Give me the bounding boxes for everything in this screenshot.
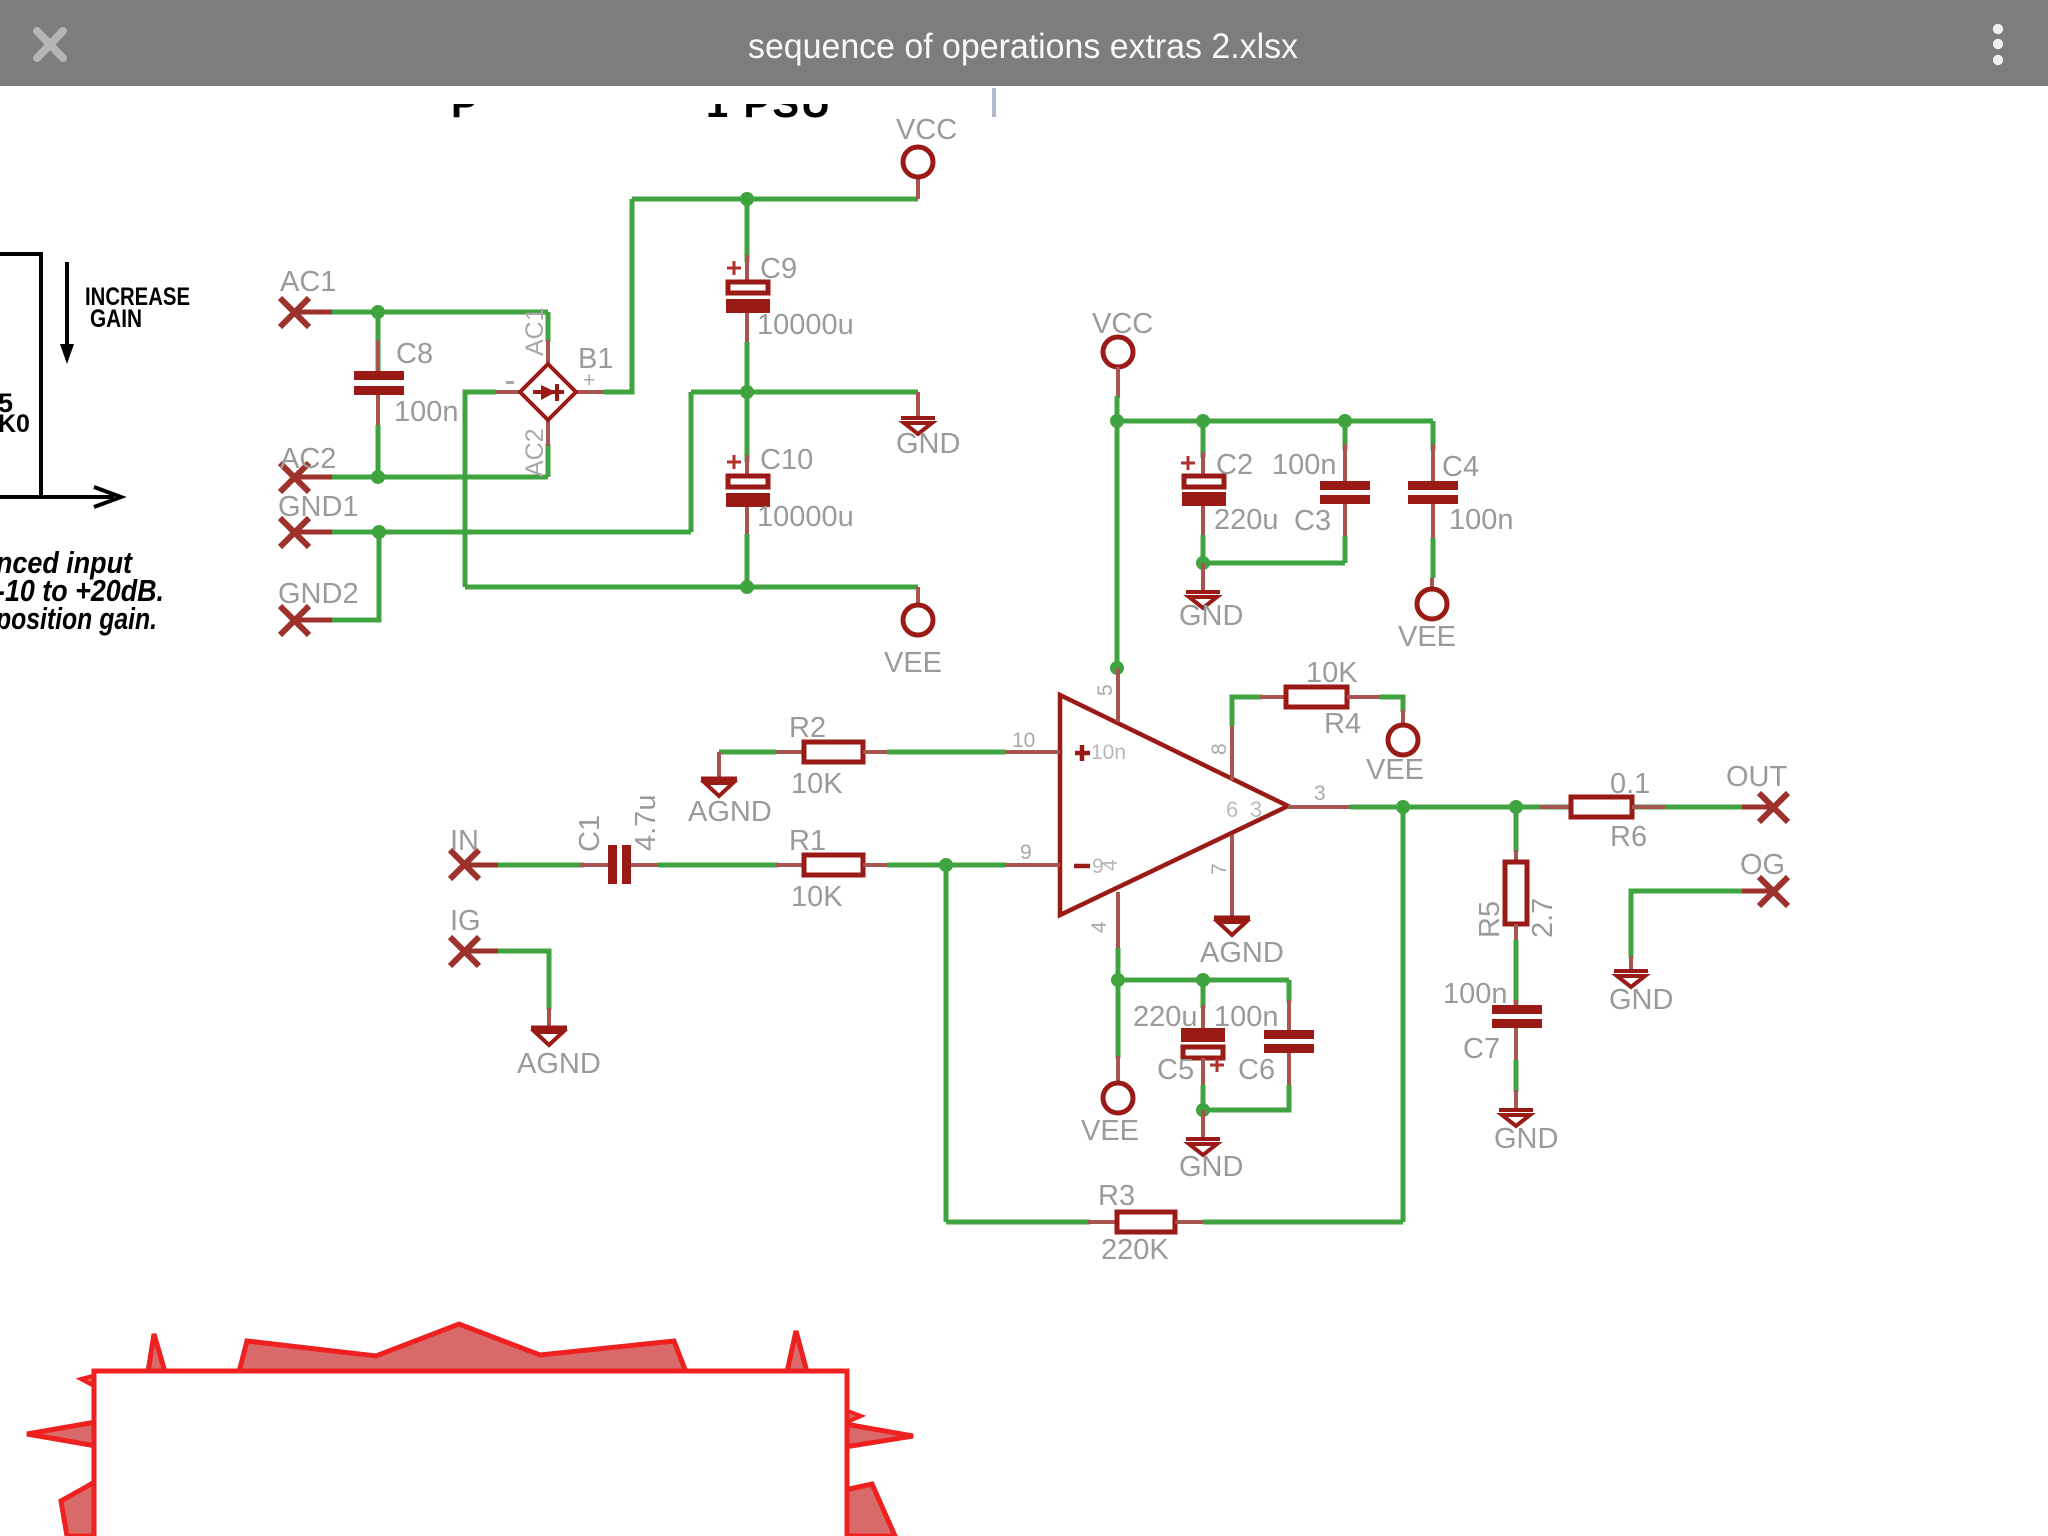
- svg-text:GND: GND: [896, 428, 960, 460]
- svg-text:C1: C1: [574, 815, 606, 852]
- capacitor C10 lead bottom: [745, 507, 749, 534]
- svg-text:VEE: VEE: [884, 647, 942, 679]
- terminal VCC2 stub: [1116, 367, 1120, 398]
- svg-text:10K: 10K: [791, 768, 843, 800]
- resistor R3 lead left: [1088, 1220, 1119, 1224]
- capacitor C7: [1492, 1005, 1542, 1028]
- opamp minus input mark: [1074, 864, 1090, 869]
- svg-text:10n: 10n: [1091, 741, 1126, 764]
- wire R5 top: [1514, 807, 1519, 852]
- resistor R4 lead left: [1260, 695, 1288, 699]
- capacitor C1 lead right: [631, 863, 660, 867]
- svg-text:IG: IG: [450, 905, 481, 937]
- bridge B1 body: [520, 364, 576, 420]
- node GND1-GND2 junction: [372, 525, 386, 539]
- ground GND stub below C2: [1201, 563, 1205, 592]
- svg-text:3: 3: [1250, 797, 1262, 822]
- node output junction R3: [1396, 800, 1410, 814]
- analog ground AGND stub (R2): [717, 752, 721, 779]
- wire GND2: [310, 532, 379, 620]
- svg-text:GAIN: GAIN: [90, 305, 142, 333]
- capacitor C5 lead bottom: [1201, 1058, 1205, 1085]
- capacitor C9 lead top: [745, 199, 750, 262]
- svg-text:220K: 220K: [1101, 1234, 1169, 1266]
- wire R3 bottom left: [946, 1220, 1090, 1225]
- analog ground AGND symbol (IG): [531, 1028, 567, 1045]
- resistor R6 body: [1571, 797, 1632, 817]
- svg-text:AGND: AGND: [1200, 937, 1284, 969]
- wire C7 to GND: [1514, 1060, 1519, 1092]
- starburst left notch: [81, 1375, 96, 1387]
- node C5 C6 bottom junction: [1196, 1103, 1210, 1117]
- svg-text:position gain.: position gain.: [0, 601, 157, 636]
- wire IN to C1: [498, 863, 584, 868]
- resistor R1 lead left: [776, 863, 806, 867]
- svg-text:C6: C6: [1238, 1054, 1275, 1086]
- node top rail C9 junction: [740, 192, 754, 206]
- resistor R2 lead right: [863, 750, 889, 754]
- terminal VEE4 circle: [1103, 1083, 1133, 1113]
- capacitor C6: [1264, 1030, 1314, 1053]
- ground GND symbol (C5 C6): [1186, 1139, 1220, 1155]
- svg-text:AC1: AC1: [280, 266, 336, 298]
- svg-text:IN: IN: [450, 825, 479, 857]
- resistor R4 body: [1286, 687, 1347, 707]
- resistor R4 lead right: [1347, 695, 1382, 699]
- capacitor C9: [728, 282, 768, 293]
- wire GND1 up to mid rail: [689, 392, 694, 532]
- svg-text:C3: C3: [1294, 505, 1331, 537]
- increase-gain arrow shaft: [65, 262, 69, 348]
- svg-text:10: 10: [1012, 729, 1035, 752]
- wire R5 to C7: [1514, 940, 1519, 1006]
- svg-text:VCC: VCC: [896, 114, 957, 146]
- svg-text:R2: R2: [789, 712, 826, 744]
- wiper arrow shaft: [0, 495, 114, 499]
- terminal VCC stub: [916, 178, 920, 199]
- wire top rail: [632, 197, 918, 202]
- svg-text:8: 8: [1208, 743, 1231, 755]
- node C5 top junction: [1196, 973, 1210, 987]
- opamp U1 body: [1060, 695, 1288, 915]
- wire C1 to R1: [658, 863, 778, 868]
- starburst top bump: [239, 1324, 686, 1372]
- node AC1-C8 junction: [371, 305, 385, 319]
- svg-text:VCC: VCC: [1092, 308, 1153, 340]
- svg-text:AGND: AGND: [688, 796, 772, 828]
- analog ground AGND symbol (R2): [701, 779, 737, 796]
- wire IG to AGND: [498, 951, 549, 1010]
- capacitor C9 plus: [727, 261, 741, 275]
- ground GND symbol: [901, 418, 935, 434]
- svg-text:GND2: GND2: [278, 578, 359, 610]
- wire R4 to VEE corner: [1380, 697, 1403, 712]
- wire C6 bottom to junction: [1203, 1085, 1289, 1110]
- terminal VEE circle: [903, 605, 933, 635]
- terminal VEE4 stub: [1116, 1056, 1120, 1084]
- capacitor C2 plus: [1181, 456, 1195, 470]
- terminal VEE3 stub: [1401, 710, 1405, 726]
- svg-text:10K: 10K: [1306, 657, 1358, 689]
- starburst left spike: [27, 1422, 96, 1446]
- svg-text:10K: 10K: [791, 881, 843, 913]
- wire OG: [1631, 891, 1757, 958]
- page separator line: [992, 88, 996, 117]
- resistor R5 lead bottom: [1514, 924, 1518, 942]
- pad GND2: [280, 606, 332, 635]
- ground GND symbol (OG): [1614, 971, 1648, 987]
- svg-text:100n: 100n: [1272, 449, 1337, 481]
- svg-text:sequence of operations extras: sequence of operations extras 2.xlsx: [748, 27, 1298, 66]
- pad OG: [1742, 877, 1788, 906]
- ground GND stub (OG): [1629, 956, 1633, 971]
- terminal VEE3 circle: [1388, 725, 1418, 755]
- opamp pin8 lead: [1230, 724, 1234, 780]
- resistor R6 lead right: [1632, 805, 1665, 809]
- svg-text:220u: 220u: [1214, 504, 1279, 536]
- svg-text:C2: C2: [1216, 449, 1253, 481]
- svg-text:R4: R4: [1324, 708, 1361, 740]
- terminal VEE2 circle: [1417, 589, 1447, 619]
- svg-text:AGND: AGND: [517, 1048, 601, 1080]
- capacitor C10: [728, 476, 768, 487]
- certificate white box: [94, 1371, 847, 1536]
- pad AC1: [280, 298, 332, 327]
- resistor R1 lead right: [863, 863, 889, 867]
- analog ground AGND symbol (pin7): [1214, 918, 1250, 935]
- opamp output stub: [1288, 805, 1352, 809]
- analog ground AGND stub (IG): [547, 1008, 551, 1028]
- ground GND stub: [916, 392, 920, 418]
- svg-text:VEE: VEE: [1398, 621, 1456, 653]
- pad AC2: [280, 463, 332, 492]
- node pin5 junction: [1110, 661, 1124, 675]
- wire AC2 up to bridge: [546, 444, 551, 477]
- resistor R1 body: [804, 855, 863, 875]
- close X icon: [37, 31, 63, 58]
- ground GND stub (C5 C6): [1201, 1110, 1205, 1139]
- increase-gain arrow head: [60, 344, 74, 364]
- resistor R3 lead right: [1175, 1220, 1205, 1224]
- pot box top line: [0, 252, 41, 256]
- starburst right spike: [845, 1424, 913, 1447]
- menu dots: [1993, 24, 2003, 65]
- capacitor C2 lead top: [1201, 421, 1206, 458]
- capacitor C3 lead bottom: [1343, 504, 1347, 536]
- wire R2 to AGND corner: [719, 750, 776, 755]
- resistor R6 lead left: [1540, 805, 1573, 809]
- wire R1 to opamp pin9: [887, 863, 1006, 868]
- opamp pin10 stub: [1006, 750, 1060, 754]
- capacitor C2: [1184, 476, 1224, 487]
- terminal VCC2 circle: [1103, 337, 1133, 367]
- wire VCC2 vertical to opamp: [1115, 421, 1120, 670]
- svg-text:9: 9: [1020, 841, 1032, 864]
- opamp plus input mark: [1075, 745, 1090, 761]
- svg-text:C7: C7: [1463, 1033, 1500, 1065]
- starburst top spike left: [148, 1334, 165, 1372]
- pad IN: [450, 850, 500, 879]
- terminal VEE2 stub: [1430, 578, 1434, 590]
- svg-text:R6: R6: [1610, 821, 1647, 853]
- capacitor C8: [354, 371, 404, 395]
- svg-text:GND: GND: [1609, 984, 1673, 1016]
- svg-text:10000u: 10000u: [757, 309, 854, 341]
- opamp pin4 lead: [1116, 892, 1120, 950]
- wire pin8 to R4: [1232, 697, 1262, 726]
- capacitor C1: [608, 845, 631, 884]
- wiper arrow head: [94, 487, 121, 507]
- wire GND1 horizontal: [310, 530, 691, 535]
- capacitor C6 lead top: [1287, 1000, 1291, 1031]
- node pin4 junction: [1111, 973, 1125, 987]
- wire VCC2 down: [1115, 396, 1120, 421]
- svg-text:R3: R3: [1098, 1180, 1135, 1212]
- capacitor C1 lead left: [580, 863, 609, 867]
- resistor R5 lead top: [1514, 850, 1518, 864]
- capacitor C8 lead bottom: [376, 395, 380, 425]
- terminal VCC circle: [903, 147, 933, 177]
- svg-text:VEE: VEE: [1366, 754, 1424, 786]
- opamp pin7 lead: [1230, 835, 1234, 918]
- resistor R2 lead left: [776, 750, 806, 754]
- capacitor C4 lead top: [1431, 421, 1436, 450]
- wire bridge minus to VEE rail: [465, 392, 496, 587]
- svg-text:C5: C5: [1157, 1054, 1194, 1086]
- wire bridge plus up to top rail: [604, 199, 632, 392]
- svg-text:GND1: GND1: [278, 491, 359, 523]
- starburst left bottom wedge: [61, 1481, 96, 1536]
- wire feedback R3 loop left: [944, 865, 949, 1222]
- svg-text:K0: K0: [0, 410, 30, 438]
- svg-text:+: +: [583, 369, 595, 392]
- svg-text:4: 4: [1099, 859, 1122, 871]
- svg-text:OG: OG: [1740, 849, 1785, 881]
- capacitor C4 lead bottom: [1431, 504, 1435, 538]
- wire mid rail: [691, 390, 918, 395]
- svg-text:0.1: 0.1: [1610, 768, 1650, 800]
- svg-text:R5: R5: [1474, 901, 1506, 938]
- starburst right bottom wedge: [845, 1484, 895, 1536]
- svg-text:4: 4: [1088, 921, 1111, 933]
- wire output rail: [1350, 805, 1744, 810]
- capacitor C9 lead bottom: [745, 313, 749, 342]
- node VEE rail junction: [740, 580, 754, 594]
- svg-text:GND: GND: [1179, 1151, 1243, 1183]
- svg-text:C4: C4: [1442, 451, 1479, 483]
- svg-text:7: 7: [1208, 863, 1231, 875]
- ground GND stub (C7): [1514, 1090, 1518, 1110]
- capacitor C7 lead bottom: [1514, 1028, 1518, 1062]
- wire R2 to opamp pin10: [887, 750, 1006, 755]
- capacitor C10 plus: [727, 455, 741, 469]
- svg-text:GND: GND: [1494, 1123, 1558, 1155]
- wire AC2 horizontal: [310, 475, 548, 480]
- pot box right line: [39, 252, 43, 499]
- svg-text:AC2: AC2: [280, 443, 336, 475]
- node feedback junction: [939, 858, 953, 872]
- svg-text:C8: C8: [396, 338, 433, 370]
- opamp pin9 stub: [1006, 863, 1060, 867]
- wire R3 bottom right: [1203, 1220, 1403, 1225]
- capacitor C3 lead top: [1343, 421, 1348, 450]
- svg-text:4.7u: 4.7u: [630, 795, 662, 851]
- node mid rail junction: [740, 385, 754, 399]
- svg-text:C9: C9: [760, 253, 797, 285]
- node rail corner junction: [1110, 414, 1124, 428]
- capacitor C10 lead top: [745, 392, 750, 462]
- starburst right notch: [845, 1410, 861, 1423]
- capacitor C5 lead top: [1201, 980, 1206, 1008]
- svg-text:R1: R1: [789, 825, 826, 857]
- svg-text:VEE: VEE: [1081, 1115, 1139, 1147]
- capacitor C5: [1181, 1028, 1225, 1042]
- wire VEE4 down: [1116, 980, 1121, 1058]
- capacitor C7 lead top: [1514, 1000, 1518, 1006]
- top toolbar: [0, 0, 2048, 86]
- capacitor C8 lead top: [376, 312, 381, 371]
- svg-text:100n: 100n: [1443, 978, 1508, 1010]
- wire pin4 down: [1116, 948, 1121, 980]
- wire AC1 down to bridge: [546, 312, 551, 342]
- svg-text:OUT: OUT: [1726, 761, 1788, 793]
- svg-text:GND: GND: [1179, 600, 1243, 632]
- pad OUT: [1742, 793, 1788, 822]
- node rail C3 junction: [1338, 414, 1352, 428]
- wire bottom VEE rail: [465, 585, 918, 590]
- capacitor C4: [1408, 481, 1458, 504]
- svg-text:6: 6: [1226, 797, 1238, 822]
- svg-text:AC1: AC1: [521, 307, 549, 356]
- pad GND1: [280, 518, 332, 547]
- opamp pin5 lead: [1116, 668, 1120, 722]
- node rail C2 junction: [1196, 414, 1210, 428]
- node output junction R5: [1509, 800, 1523, 814]
- svg-text:AC2: AC2: [521, 428, 549, 477]
- capacitor C3: [1320, 481, 1370, 504]
- resistor R5 body: [1505, 862, 1527, 924]
- bridge minus mark: [506, 381, 514, 384]
- wire decoupling rail: [1117, 419, 1433, 424]
- wire pin4 to C5 C6: [1118, 978, 1289, 983]
- ground GND symbol (C7): [1499, 1110, 1533, 1126]
- starburst top spike right: [787, 1331, 807, 1372]
- capacitor C2 lead bottom: [1201, 506, 1205, 535]
- bridge B1 diode: [533, 384, 564, 401]
- wire feedback R3 loop right: [1401, 807, 1406, 1222]
- node C2 bottom junction: [1196, 556, 1210, 570]
- bridge B1 stubs: [496, 340, 604, 446]
- svg-text:220u: 220u: [1133, 1001, 1198, 1033]
- svg-text:2.7: 2.7: [1527, 898, 1559, 938]
- svg-text:C10: C10: [760, 444, 813, 476]
- svg-text:10000u: 10000u: [757, 501, 854, 533]
- capacitor C6 lead bottom: [1287, 1053, 1291, 1085]
- svg-text:100n: 100n: [1214, 1001, 1279, 1033]
- svg-text:5: 5: [1094, 684, 1117, 696]
- wire C6 top corner: [1287, 980, 1292, 1002]
- resistor R2 body: [804, 742, 863, 762]
- capacitor C5 plus: [1210, 1058, 1224, 1072]
- svg-text:100n: 100n: [1449, 504, 1514, 536]
- svg-text:3: 3: [1314, 782, 1326, 805]
- svg-text:100n: 100n: [394, 396, 459, 428]
- node AC2-C8 junction: [371, 470, 385, 484]
- pad IG: [450, 937, 500, 966]
- ground GND symbol below C2: [1186, 592, 1220, 608]
- terminal VEE stub: [916, 587, 920, 606]
- wire C2-C3 bottom: [1203, 561, 1345, 566]
- wire AC1 horizontal: [310, 310, 548, 315]
- resistor R3 body: [1117, 1212, 1175, 1232]
